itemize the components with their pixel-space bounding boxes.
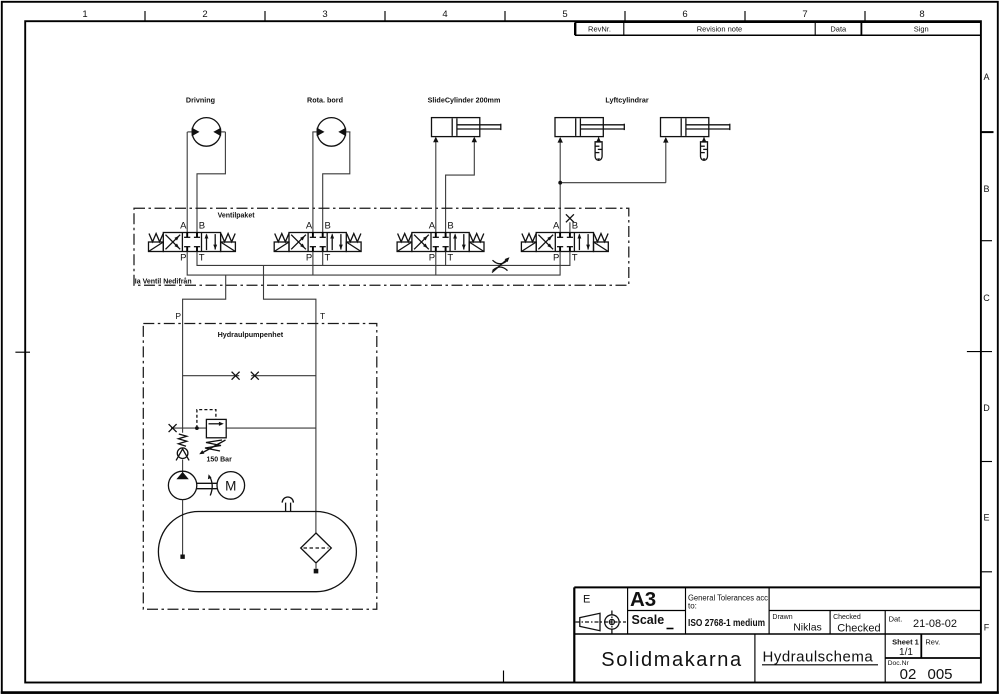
svg-text:P: P (175, 311, 181, 321)
svg-text:Hydraulpumpenhet: Hydraulpumpenhet (218, 330, 284, 339)
svg-text:Data: Data (830, 25, 847, 34)
svg-text:C: C (983, 293, 990, 303)
svg-text:Sheet 1: Sheet 1 (892, 637, 919, 646)
svg-text:Lyftcylindrar: Lyftcylindrar (605, 96, 648, 105)
svg-text:Niklas: Niklas (793, 622, 822, 634)
svg-text:P: P (553, 253, 559, 264)
svg-text:A: A (553, 220, 560, 231)
svg-text:A: A (180, 220, 187, 231)
svg-text:Hydraulschema: Hydraulschema (763, 649, 874, 666)
svg-text:02: 02 (900, 666, 917, 683)
svg-text:Solidmakarna: Solidmakarna (601, 649, 743, 671)
svg-text:Drivning: Drivning (186, 96, 215, 105)
svg-text:E: E (583, 594, 590, 606)
svg-text:P: P (180, 253, 186, 264)
svg-text:005: 005 (927, 666, 952, 683)
svg-text:A: A (306, 220, 313, 231)
svg-text:T: T (199, 253, 205, 264)
svg-text:1/1: 1/1 (899, 647, 913, 658)
svg-text:General Tolerances acc: General Tolerances acc (688, 593, 768, 602)
svg-text:Rota. bord: Rota. bord (307, 96, 343, 105)
svg-text:2: 2 (202, 9, 207, 20)
svg-text:D: D (983, 403, 990, 413)
svg-text:B: B (199, 220, 205, 231)
svg-text:to:: to: (688, 601, 697, 610)
svg-text:Checked: Checked (833, 614, 861, 621)
svg-text:M: M (225, 478, 236, 493)
svg-text:P: P (306, 253, 312, 264)
svg-text:4: 4 (442, 9, 447, 20)
svg-text:Drawn: Drawn (772, 614, 792, 621)
svg-text:21-08-02: 21-08-02 (913, 618, 957, 630)
svg-text:Ventilpaket: Ventilpaket (218, 212, 256, 219)
svg-text:P: P (429, 253, 435, 264)
svg-text:B: B (447, 220, 453, 231)
svg-text:RevNr.: RevNr. (588, 25, 611, 34)
svg-text:Ia Ventil Nedifrån: Ia Ventil Nedifrån (135, 278, 192, 286)
svg-text:7: 7 (802, 9, 807, 20)
svg-text:T: T (572, 253, 578, 264)
svg-text:A: A (983, 72, 989, 82)
svg-text:Sign: Sign (914, 25, 929, 34)
svg-text:SlideCylinder 200mm: SlideCylinder 200mm (428, 96, 501, 105)
svg-text:T: T (320, 311, 325, 321)
svg-text:3: 3 (322, 9, 327, 20)
svg-text:1: 1 (82, 9, 87, 20)
svg-text:Revision note: Revision note (697, 25, 742, 34)
svg-text:F: F (984, 623, 990, 633)
svg-text:Scale: Scale (632, 613, 665, 627)
svg-text:T: T (325, 253, 331, 264)
svg-text:E: E (983, 513, 989, 523)
svg-text:B: B (325, 220, 331, 231)
svg-text:Checked: Checked (837, 623, 880, 635)
svg-text:B: B (983, 184, 989, 194)
svg-text:A3: A3 (630, 588, 656, 611)
svg-text:A: A (429, 220, 436, 231)
svg-text:150 Bar: 150 Bar (207, 456, 233, 463)
svg-text:8: 8 (919, 9, 924, 20)
svg-text:B: B (572, 220, 578, 231)
svg-text:Dat.: Dat. (889, 614, 903, 623)
svg-text:5: 5 (562, 9, 567, 20)
svg-text:6: 6 (682, 9, 687, 20)
svg-text:T: T (447, 253, 453, 264)
svg-text:Rev.: Rev. (925, 637, 940, 646)
svg-text:ISO 2768-1 medium: ISO 2768-1 medium (688, 617, 765, 629)
